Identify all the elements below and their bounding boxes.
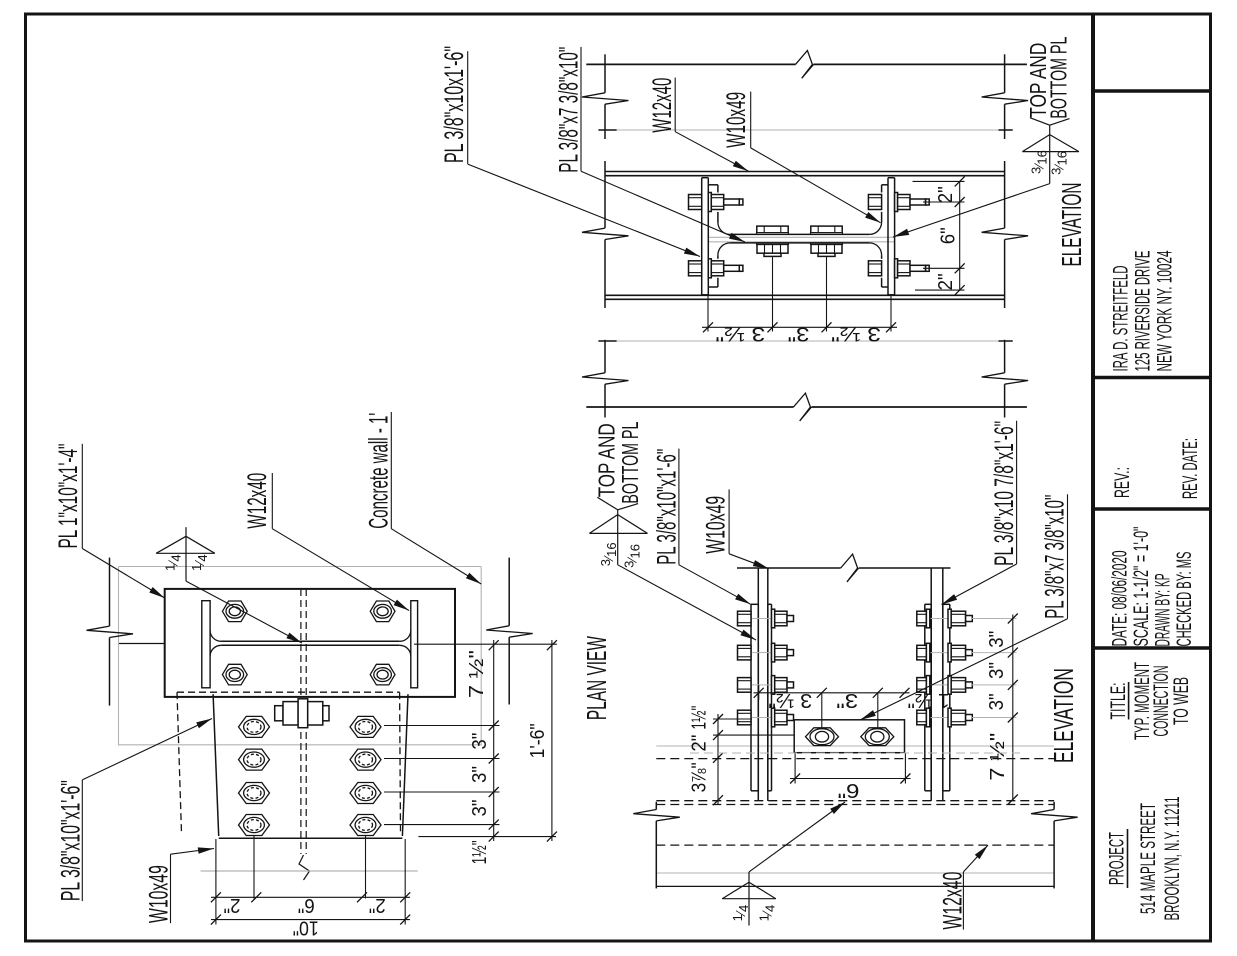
svg-text:PL 3/8"x7 3/8"x10": PL 3/8"x7 3/8"x10" (554, 47, 584, 173)
svg-text:REV.:: REV.: (1110, 467, 1134, 498)
svg-text:1 ½": 1 ½" (908, 689, 950, 711)
svg-text:TO WEB: TO WEB (1169, 677, 1193, 725)
svg-text:PLAN VIEW: PLAN VIEW (581, 636, 612, 720)
svg-text:W12x40: W12x40 (937, 872, 967, 930)
svg-text:NEW YORK NY. 10024: NEW YORK NY. 10024 (1152, 250, 1176, 371)
svg-text:IRA D. STREITFELD: IRA D. STREITFELD (1109, 266, 1133, 372)
svg-text:DATE: 08/06/2020: DATE: 08/06/2020 (1108, 550, 1132, 646)
svg-text:6": 6" (838, 779, 860, 801)
svg-text:PL 3/8"x10x1'-6": PL 3/8"x10x1'-6" (439, 46, 469, 163)
svg-text:2": 2" (689, 735, 711, 752)
svg-text:PL 1"x10"x1'-4": PL 1"x10"x1'-4" (53, 444, 83, 549)
svg-text:7 ½": 7 ½" (987, 733, 1009, 781)
svg-text:CHECKED BY: MS: CHECKED BY: MS (1172, 552, 1196, 647)
svg-text:W10x49: W10x49 (144, 865, 174, 923)
svg-text:ELEVATION: ELEVATION (1048, 668, 1079, 763)
svg-text:3": 3" (986, 631, 1008, 648)
svg-text:SCALE: 1-1/2" = 1'-0": SCALE: 1-1/2" = 1'-0" (1129, 527, 1153, 647)
svg-text:BROOKLYN, N.Y. 11211: BROOKLYN, N.Y. 11211 (1160, 797, 1184, 921)
svg-text:6": 6" (937, 227, 959, 244)
svg-text:2": 2" (224, 894, 241, 916)
svg-text:3": 3" (986, 662, 1008, 679)
svg-text:3": 3" (986, 693, 1008, 710)
svg-text:7 ½": 7 ½" (466, 650, 488, 698)
svg-text:W10x49: W10x49 (721, 92, 751, 148)
svg-text:1½": 1½" (469, 840, 491, 864)
svg-text:3⅞": 3⅞" (689, 762, 711, 792)
svg-text:3 ½": 3 ½" (715, 323, 765, 345)
svg-text:W10x49: W10x49 (700, 496, 730, 554)
svg-text:DRAWN BY: KP: DRAWN BY: KP (1151, 574, 1175, 647)
svg-text:PL 3/8"x7 3/8"x10": PL 3/8"x7 3/8"x10" (1040, 495, 1070, 619)
svg-text:3": 3" (788, 323, 810, 345)
svg-text:3 ½": 3 ½" (831, 323, 881, 345)
svg-text:2": 2" (935, 273, 957, 290)
svg-text:125 RIVERSIDE DRIVE: 125 RIVERSIDE DRIVE (1131, 251, 1155, 372)
svg-text:3": 3" (469, 733, 491, 750)
svg-text:514 MAPLE STREET: 514 MAPLE STREET (1136, 803, 1160, 914)
svg-text:PL 3/8"x10 7/8"x1'-6": PL 3/8"x10 7/8"x1'-6" (989, 421, 1019, 566)
svg-text:10": 10" (293, 917, 319, 939)
svg-text:1½": 1½" (689, 706, 711, 730)
svg-text:PROJECT: PROJECT (1105, 832, 1129, 885)
svg-text:1'-6": 1'-6" (527, 723, 549, 758)
svg-text:6": 6" (298, 894, 315, 916)
svg-text:3": 3" (469, 766, 491, 783)
svg-text:ELEVATION: ELEVATION (1056, 183, 1087, 267)
svg-text:PL 3/8"x10"x1'-6": PL 3/8"x10"x1'-6" (652, 449, 682, 565)
svg-text:W12x40: W12x40 (242, 473, 272, 529)
svg-text:3 ½": 3 ½" (768, 689, 812, 711)
svg-text:2": 2" (935, 186, 957, 203)
svg-text:BOTTOM PL: BOTTOM PL (617, 421, 643, 503)
svg-text:2": 2" (369, 894, 386, 916)
svg-text:3": 3" (469, 800, 491, 817)
svg-text:TOP AND: TOP AND (594, 423, 620, 497)
svg-text:REV. DATE:: REV. DATE: (1178, 438, 1202, 499)
svg-text:W12x40: W12x40 (647, 78, 677, 133)
svg-text:PL 3/8"x10"x1'-6": PL 3/8"x10"x1'-6" (56, 780, 86, 901)
svg-text:TITLE:: TITLE: (1106, 683, 1130, 720)
svg-text:3": 3" (836, 689, 858, 711)
svg-text:Concrete wall - 1': Concrete wall - 1' (363, 413, 393, 529)
svg-text:BOTTOM PL: BOTTOM PL (1046, 36, 1072, 118)
